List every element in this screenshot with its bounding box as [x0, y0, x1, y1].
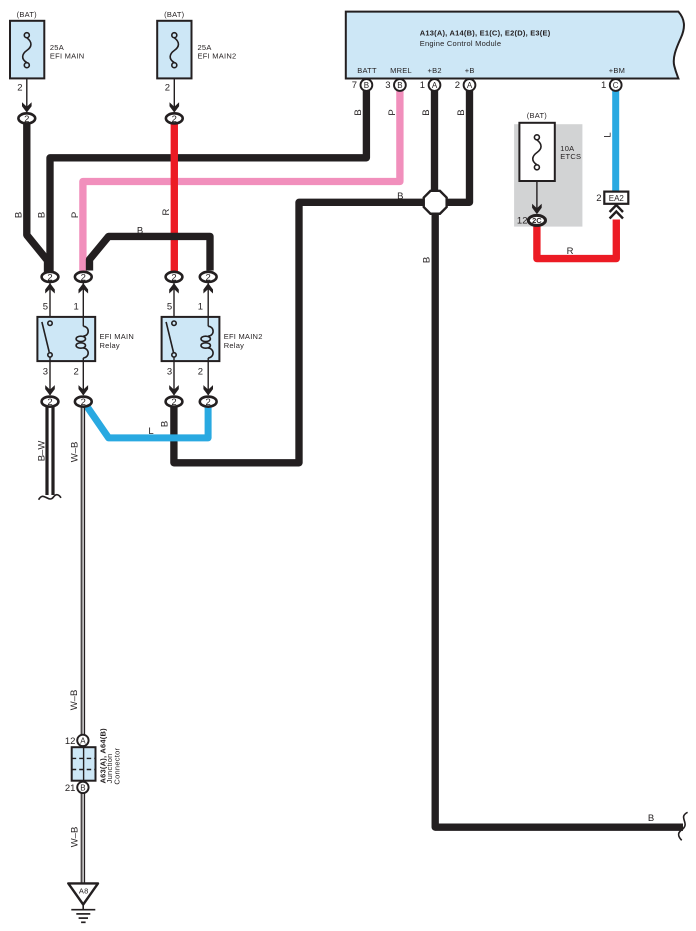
svg-text:A: A — [467, 81, 473, 90]
svg-text:2: 2 — [165, 83, 170, 94]
svg-text:3: 3 — [43, 366, 48, 377]
relay2 pin5 wire — [173, 283, 175, 321]
arrow into relay1 pin5 connector from below — [45, 283, 55, 293]
svg-text:+B: +B — [465, 66, 475, 75]
svg-text:W–B: W–B — [69, 690, 80, 711]
fuse ETCS 10A — [519, 111, 581, 181]
ECM pin 2 +B terminal A — [455, 79, 476, 91]
connector 2 below relay1 pin2 — [75, 397, 92, 408]
svg-text:EFI MAIN: EFI MAIN — [50, 51, 85, 60]
svg-text:+BM: +BM — [609, 66, 625, 75]
svg-text:Engine Control Module: Engine Control Module — [420, 39, 502, 48]
relay2 switch contact — [166, 321, 176, 395]
arrow into relay1 pin1 connector from below — [79, 283, 89, 293]
svg-text:B: B — [37, 212, 48, 218]
svg-text:R: R — [161, 208, 172, 215]
svg-text:Relay: Relay — [224, 341, 244, 350]
svg-text:B: B — [353, 109, 364, 115]
svg-text:P: P — [387, 109, 398, 115]
wire B from junction node to ECM pin +B2 — [431, 91, 438, 196]
connector 2C — [528, 215, 545, 225]
svg-text:2C: 2C — [532, 216, 542, 225]
svg-text:1: 1 — [198, 302, 203, 313]
wire L from +BM pin to EA2 — [612, 91, 619, 194]
fuse EFI MAIN pin 2 wire — [26, 78, 28, 107]
svg-text:B: B — [80, 783, 85, 792]
connector 2 above relay1 pin5 — [42, 272, 59, 283]
connector 2 below fuse EFI MAIN2 — [166, 113, 183, 124]
svg-text:1: 1 — [601, 80, 606, 91]
arrow into relay2 pin1 connector from below — [203, 283, 213, 293]
svg-text:3: 3 — [385, 80, 390, 91]
ECM pin 1 +B2 terminal A — [420, 79, 441, 91]
ECM Engine Control Module box — [346, 12, 684, 79]
svg-text:MREL: MREL — [390, 66, 412, 75]
svg-text:W–B: W–B — [70, 442, 81, 463]
wire B from junction node to relay2 pin3 connector — [174, 202, 425, 463]
svg-text:Relay: Relay — [100, 341, 120, 350]
svg-text:3: 3 — [167, 366, 172, 377]
relay2 coil — [201, 317, 213, 395]
relay EFI MAIN Relay — [37, 302, 134, 378]
arrow into relay2 pin5 connector from below — [169, 283, 179, 293]
ECM pin 1 +BM terminal C — [601, 79, 622, 91]
svg-text:2: 2 — [74, 366, 79, 377]
svg-text:B: B — [397, 191, 403, 202]
junction connector pin 21 terminal B — [65, 782, 89, 794]
svg-text:(BAT): (BAT) — [17, 10, 38, 19]
svg-text:B: B — [13, 212, 24, 218]
svg-text:1: 1 — [420, 80, 425, 91]
svg-text:+B2: +B2 — [428, 66, 442, 75]
svg-text:(BAT): (BAT) — [527, 111, 548, 120]
wire from fuse EFI MAIN to relay1 pin5 connector — [27, 124, 48, 273]
svg-text:B: B — [137, 226, 143, 237]
svg-text:P: P — [70, 212, 81, 218]
svg-text:B: B — [422, 257, 433, 263]
svg-text:L: L — [148, 426, 153, 437]
arrow into ETCS connector 2C — [532, 204, 542, 214]
svg-text:EFI MAIN: EFI MAIN — [100, 332, 135, 341]
arrow into relay2 pin2 connector — [203, 385, 213, 395]
ETCS fuse holder shaded area — [514, 124, 582, 226]
connector 2 above relay2 pin5 — [166, 272, 183, 283]
wire B from ECM pin BATT to relay1 pin5 connector — [50, 91, 366, 272]
relay2 pin1 wire — [207, 283, 209, 317]
relay1 coil — [76, 317, 88, 395]
svg-text:A: A — [80, 736, 86, 745]
svg-text:21: 21 — [65, 783, 76, 794]
ECM pin 7 BATT terminal B — [352, 79, 373, 91]
connector 2 above relay2 pin1 — [200, 272, 217, 283]
junction connector pin 12 terminal A — [65, 735, 89, 747]
svg-text:B: B — [364, 81, 369, 90]
svg-text:ETCS: ETCS — [560, 152, 581, 161]
wire B from ECM pin +B to junction node — [446, 91, 470, 203]
svg-text:Connector: Connector — [112, 747, 121, 784]
svg-text:2: 2 — [455, 80, 460, 91]
relay1 switch contact — [42, 321, 52, 395]
connector 2 above relay1 pin1 — [75, 272, 92, 283]
relay EFI MAIN2 Relay — [162, 302, 263, 378]
svg-text:5: 5 — [43, 302, 48, 313]
arrow into fuse EFI MAIN2 connector — [170, 102, 180, 112]
junction node (octagon) — [424, 191, 447, 214]
svg-text:A13(A), A14(B), E1(C), E2(D),: A13(A), A14(B), E1(C), E2(D), E3(E) — [420, 28, 551, 37]
wire B-W from relay1 pin3 connector — [39, 405, 61, 500]
wire P (MREL) from ECM to relay1 pin1 connector — [83, 91, 400, 272]
svg-text:2: 2 — [596, 193, 601, 204]
svg-text:B: B — [421, 109, 432, 115]
svg-text:7: 7 — [352, 80, 357, 91]
svg-text:C: C — [613, 81, 619, 90]
svg-text:A: A — [432, 81, 438, 90]
arrow into relay1 pin3 connector — [45, 385, 55, 395]
svg-text:BATT: BATT — [357, 66, 377, 75]
svg-text:12: 12 — [517, 216, 528, 227]
svg-text:W–B: W–B — [70, 827, 81, 848]
arrow into relay2 pin3 connector — [169, 385, 179, 395]
connector 2 below relay1 pin3 — [42, 397, 59, 408]
arrow into relay1 pin2 connector — [79, 385, 89, 395]
junction connector A63(A), A64(B) — [72, 728, 122, 785]
svg-text:EA2: EA2 — [609, 194, 625, 203]
ground A8 — [68, 883, 98, 922]
relay1 pin5 wire — [49, 283, 51, 321]
wire L between relay1 pin2 connector and relay2 pin2 connector — [86, 405, 209, 438]
svg-text:(BAT): (BAT) — [164, 10, 185, 19]
svg-text:B: B — [648, 813, 654, 824]
svg-text:EFI MAIN2: EFI MAIN2 — [198, 51, 237, 60]
wire R from fuse EFI MAIN2 to relay2 pin5 connector — [171, 124, 178, 273]
wire R from ETCS fuse connector 2C to EA2 — [537, 220, 616, 259]
svg-text:EFI MAIN2: EFI MAIN2 — [224, 332, 263, 341]
svg-text:L: L — [602, 132, 613, 137]
ETCS fuse output wire — [536, 181, 538, 209]
svg-text:2: 2 — [198, 366, 203, 377]
svg-text:12: 12 — [65, 736, 76, 747]
arrow into fuse EFI MAIN connector — [22, 102, 32, 112]
wire W-B from junction connector B to ground A8 — [81, 793, 84, 884]
svg-text:B: B — [456, 109, 467, 115]
svg-text:B–W: B–W — [36, 441, 47, 462]
connector 2 below relay2 pin3 — [166, 397, 183, 408]
svg-text:5: 5 — [167, 302, 172, 313]
svg-text:1: 1 — [74, 302, 79, 313]
fuse EFI MAIN2 pin 2 wire — [173, 78, 175, 107]
connector 2 below relay2 pin2 — [200, 397, 217, 408]
relay1 pin1 wire — [82, 283, 84, 317]
fuse EFI MAIN 25A — [10, 10, 84, 78]
svg-text:R: R — [567, 246, 574, 257]
shield chevrons below EA2 — [610, 205, 623, 219]
svg-text:A8: A8 — [79, 887, 89, 896]
break symbol at right edge of wire B — [679, 812, 688, 840]
wire B linking relay1 pin1 and relay2 pin1 connectors — [90, 236, 211, 270]
svg-text:2: 2 — [17, 83, 22, 94]
wire B from junction node to bottom right edge — [435, 212, 683, 827]
svg-text:B: B — [397, 81, 402, 90]
svg-text:B: B — [160, 421, 171, 427]
wire W-B from relay1 pin2 connector to junction connector A — [81, 405, 84, 735]
connector 2 below fuse EFI MAIN — [18, 113, 35, 124]
fuse EFI MAIN2 25A — [157, 10, 236, 78]
connector EA2 — [596, 192, 628, 204]
ECM pin 3 MREL terminal B — [385, 79, 406, 91]
